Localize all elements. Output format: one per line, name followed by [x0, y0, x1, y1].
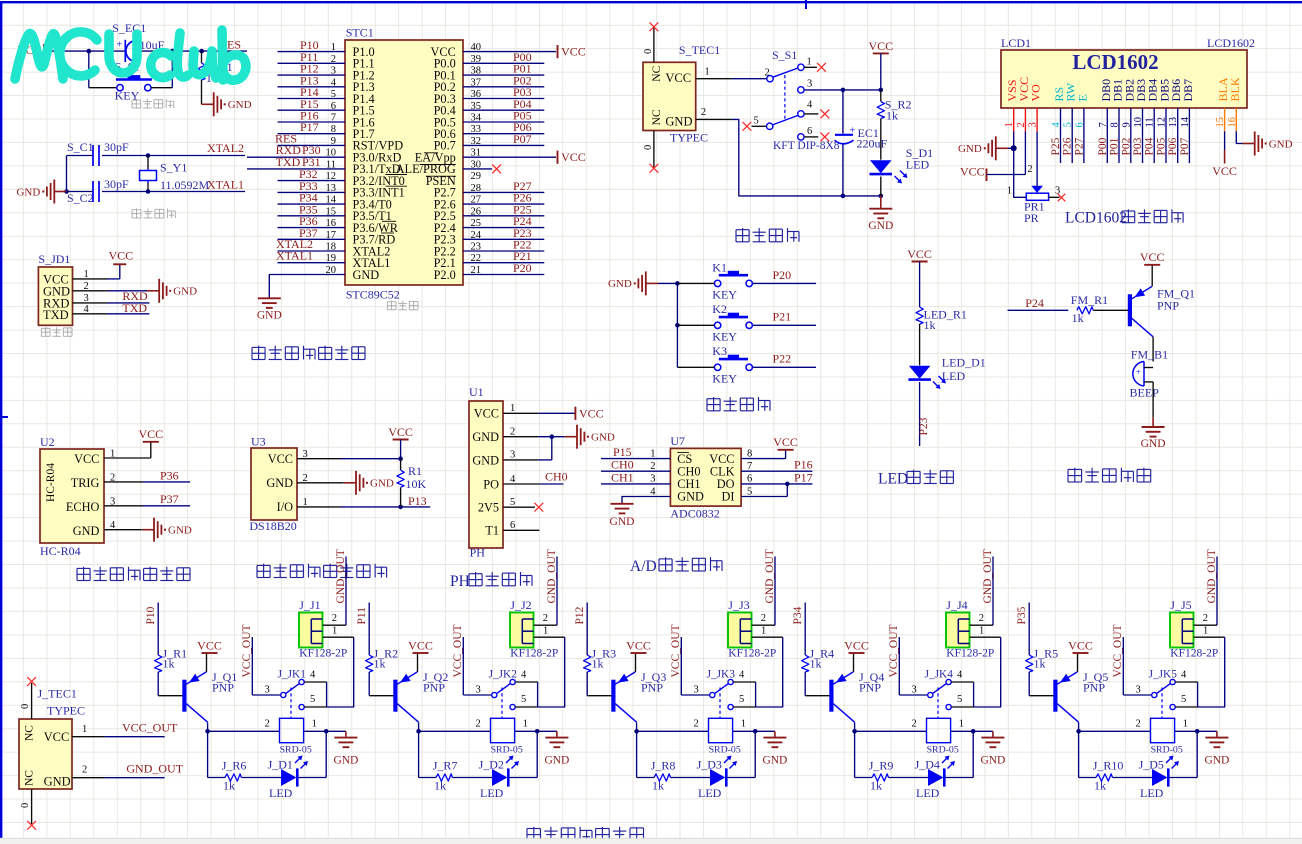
wire to J_R8: [671, 777, 711, 779]
U2 pin1 wire to VCC: [104, 442, 151, 460]
svg-text:KF128-2P: KF128-2P: [728, 648, 776, 660]
caption LCD circuit (chinese title): [1065, 209, 1183, 226]
svg-text:1: 1: [543, 626, 548, 637]
terminal pin2 wire GND_OUT (ch3): [752, 549, 776, 625]
resistor J_R5 1k: [1026, 647, 1059, 673]
svg-text:LCD1602: LCD1602: [1065, 210, 1127, 227]
svg-text:U7: U7: [670, 434, 685, 448]
svg-text:GND_OUT: GND_OUT: [335, 549, 347, 603]
wire LED branch down (ch4): [946, 731, 974, 777]
svg-text:BEEP: BEEP: [1130, 385, 1160, 399]
IC U3 DS18B20 body: [249, 435, 297, 534]
svg-text:4: 4: [807, 100, 813, 111]
power port VCC (ch3): [626, 638, 651, 653]
push button K1: [712, 260, 752, 301]
transistor J_Q2 PNP: [393, 670, 448, 722]
svg-text:0: 0: [20, 704, 31, 709]
resistor J_R4 1k: [802, 647, 835, 673]
svg-text:P21: P21: [773, 310, 792, 324]
ground GND (ch5): [1204, 731, 1229, 766]
IC STC1 STC89C52 body: [345, 26, 463, 302]
terminal pin2 wire GND_OUT (ch4): [970, 549, 994, 625]
svg-text:VCC: VCC: [579, 406, 604, 420]
relay J_JK1 coil SRD-05: [280, 718, 312, 755]
svg-text:VCC: VCC: [1140, 250, 1165, 264]
switch gang dashed link: [784, 75, 786, 119]
terminal pin1 wire (ch1): [323, 626, 354, 708]
svg-text:GND: GND: [677, 490, 704, 504]
switch blade 2-1: [773, 68, 798, 77]
wire buzzer to ground: [1152, 382, 1154, 417]
contact wires (ch5): [1175, 682, 1197, 707]
wire pin 4 P13: [278, 73, 346, 87]
wire XTAL1 net: [102, 178, 245, 194]
resistor J_R6 1k: [222, 758, 247, 792]
U3 pin1 wire P13 net: [297, 494, 430, 509]
U1 pin1 wire to VCC: [503, 403, 575, 414]
svg-text:SRD-05: SRD-05: [280, 745, 312, 756]
relay arrows (ch2): [506, 756, 519, 769]
terminal pin2 wire GND_OUT (ch1): [323, 549, 347, 625]
LCD1602 pin stubs 4-14: [1061, 108, 1190, 163]
svg-text:J_R7: J_R7: [433, 758, 458, 772]
wire VCC to reset node: [46, 50, 89, 52]
svg-text:P24: P24: [1025, 296, 1044, 310]
svg-text:LCD1602: LCD1602: [1072, 50, 1158, 74]
wire collector to VCC (ch3): [635, 653, 637, 672]
svg-text:T1: T1: [485, 524, 499, 538]
svg-text:1: 1: [523, 719, 528, 730]
caption PH module (chinese title): [450, 572, 532, 590]
wire relay pin1 to ground (ch2): [515, 719, 557, 734]
svg-text:LED: LED: [916, 786, 940, 800]
relay J_JK4 coil SRD-05: [927, 718, 959, 755]
wire relay pin1 to ground (ch1): [304, 719, 346, 734]
ground GND (STC): [257, 297, 282, 322]
svg-text:P10: P10: [145, 606, 157, 624]
wire J_R10 to node (ch5): [1079, 731, 1096, 777]
svg-text:3: 3: [650, 474, 655, 485]
wire LED_R1 to LED_D1: [919, 324, 921, 365]
wire to key S_S1 left: [89, 51, 117, 88]
svg-text:3: 3: [265, 685, 270, 696]
svg-text:J_R9: J_R9: [869, 758, 894, 772]
transistor J_Q5 PNP: [1053, 670, 1108, 722]
wire pin 30 no connect: [463, 165, 501, 174]
svg-text:GND: GND: [333, 755, 358, 767]
wire pin 14 P34: [278, 191, 346, 205]
wire crystal to XTAL1: [147, 183, 149, 192]
svg-text:5: 5: [510, 497, 515, 508]
wire emitter to relay node (ch4): [852, 722, 857, 733]
svg-text:J_R10: J_R10: [1093, 758, 1124, 772]
svg-text:+: +: [1136, 367, 1141, 377]
LED LED_D1: [908, 356, 985, 384]
wire J_R7 to node (ch2): [419, 731, 436, 777]
wire input P35: [1016, 603, 1029, 656]
ground GND (reset): [202, 92, 252, 116]
wire J_R9 to node (ch4): [855, 731, 872, 777]
svg-text:1k: 1k: [810, 657, 822, 671]
svg-text:2: 2: [694, 719, 699, 730]
power port VCC (ch5): [1068, 638, 1093, 653]
svg-text:S_JD1: S_JD1: [38, 252, 70, 266]
wire pin 15 P35: [278, 202, 346, 216]
wire VCC_OUT stub (ch4): [888, 624, 928, 695]
svg-text:GND: GND: [762, 755, 787, 767]
wire pin 5 P14: [278, 85, 346, 99]
wire emitter to relay node (ch1): [205, 722, 210, 733]
caption AD converter (chinese title): [630, 557, 722, 575]
wire J_R1 to base: [158, 672, 182, 696]
svg-text:1k: 1k: [374, 657, 386, 671]
svg-text:VCC: VCC: [408, 638, 433, 652]
svg-text:SRD-05: SRD-05: [927, 745, 959, 756]
svg-text:STC89C52: STC89C52: [346, 287, 400, 301]
svg-text:3: 3: [476, 685, 481, 696]
svg-text:GND: GND: [16, 186, 40, 198]
wire input P34: [792, 603, 805, 656]
LED_D1 emission arrows: [933, 376, 946, 389]
power port VCC (ch2): [408, 638, 433, 653]
svg-text:1: 1: [705, 67, 710, 78]
svg-text:GND: GND: [266, 476, 293, 490]
caption minimal system (chinese title): [252, 346, 365, 360]
U1 pin2 wire to GND: [503, 427, 564, 440]
svg-text:LED: LED: [878, 471, 908, 488]
U7 pin1 wire P15: [601, 445, 670, 459]
relay contact J_JK1: [265, 669, 317, 710]
svg-text:2: 2: [82, 765, 87, 776]
relay dashed link (ch1): [290, 688, 292, 719]
svg-text:1: 1: [1007, 186, 1012, 197]
svg-text:5: 5: [957, 694, 962, 705]
U7 pin4 wire to GND: [622, 486, 670, 502]
svg-text:DB7: DB7: [1181, 79, 1195, 102]
U3 pin2 wire to GND: [297, 473, 344, 484]
svg-text:10K: 10K: [406, 477, 427, 491]
svg-text:1k: 1k: [434, 779, 446, 793]
U2 pin2 wire P36: [104, 468, 190, 483]
U1 pin4 wire CH0 net: [503, 470, 567, 485]
svg-text:GND: GND: [958, 143, 982, 155]
svg-text:DI: DI: [722, 490, 735, 504]
svg-text:U1: U1: [469, 385, 484, 399]
caption ultrasonic module (chinese title): [77, 567, 190, 581]
svg-text:1: 1: [332, 626, 337, 637]
wire pin 26 P25: [463, 202, 544, 216]
svg-text:GND_OUT: GND_OUT: [1206, 549, 1218, 603]
caption relay control circuit (chinese title): [527, 827, 644, 841]
wire J_R6 to node (ch1): [208, 731, 225, 777]
svg-text:7: 7: [747, 461, 752, 472]
wire LED to ground rail: [880, 177, 882, 196]
svg-text:5: 5: [747, 486, 752, 497]
relay J_JK5 coil SRD-05: [1151, 718, 1183, 755]
wire LED branch down (ch2): [510, 731, 538, 777]
svg-text:GND: GND: [591, 432, 615, 444]
ground GND (LCD right): [1243, 132, 1293, 156]
LED S_D1: [870, 146, 934, 174]
svg-text:0: 0: [20, 803, 31, 808]
svg-text:VCC: VCC: [268, 452, 293, 466]
resistor R1 10K: [397, 459, 427, 507]
IC U1 PH body: [469, 385, 503, 560]
svg-text:2: 2: [510, 427, 515, 438]
wire pin 9 RES: [275, 131, 345, 145]
svg-text:GND: GND: [980, 755, 1005, 767]
relay dashed link (ch4): [937, 688, 939, 719]
svg-text:LCD1: LCD1: [1001, 36, 1031, 50]
svg-text:BLK: BLK: [1228, 77, 1242, 101]
wire pin 20 GND: [269, 275, 345, 298]
svg-text:K3: K3: [712, 344, 727, 358]
svg-text:2: 2: [332, 613, 337, 624]
S_TEC1 top pin 0: [643, 22, 658, 62]
svg-text:PR: PR: [1024, 211, 1039, 225]
svg-text:PH: PH: [450, 573, 470, 590]
svg-text:KF128-2P: KF128-2P: [299, 648, 347, 660]
caption reset (grey chinese): [132, 99, 174, 108]
wire pin 35 P04: [463, 97, 544, 111]
wire VCC_OUT stub (ch5): [1112, 624, 1152, 695]
svg-text:VCC_OUT: VCC_OUT: [122, 721, 178, 735]
svg-text:CH0: CH0: [545, 470, 568, 484]
LCD1602 pin names: [1005, 77, 1242, 102]
svg-text:1: 1: [312, 719, 317, 730]
LCD1602 pin numbers and nets: [1004, 116, 1238, 155]
wire J_R4 to base: [805, 672, 829, 696]
terminal pin2 wire GND_OUT (ch5): [1194, 549, 1218, 625]
switch terminal 6 with X: [798, 126, 830, 142]
wire pin 22 P21: [463, 249, 544, 263]
terminal J_J4 KF128-2P: [946, 598, 994, 659]
svg-text:GND_OUT: GND_OUT: [126, 762, 183, 776]
LCD pin15 BLA wire to VCC: [1212, 108, 1237, 178]
wire pin 8 P17: [278, 120, 346, 134]
svg-text:6: 6: [510, 520, 515, 531]
svg-text:5: 5: [739, 694, 744, 705]
svg-text:S_S1: S_S1: [772, 48, 797, 62]
wire pin 25 P24: [463, 214, 544, 228]
wire pin 24 P23: [463, 226, 544, 240]
wire key right to node B: [151, 51, 172, 88]
resistor J_R10 1k: [1093, 758, 1124, 792]
svg-text:VCC: VCC: [960, 165, 985, 179]
svg-text:VCC: VCC: [44, 730, 70, 744]
relay J_JK2 coil SRD-05: [491, 718, 523, 755]
svg-text:VCC: VCC: [74, 452, 99, 466]
wire emitter to relay node (ch2): [416, 722, 421, 733]
svg-text:P11: P11: [356, 607, 368, 625]
wires K2: [677, 310, 816, 326]
relay arrows (ch3): [724, 756, 737, 769]
svg-text:1: 1: [807, 57, 812, 68]
svg-text:1k: 1k: [592, 657, 604, 671]
ground GND (U3): [344, 471, 394, 495]
J_TEC1 pin1 wire VCC_OUT: [72, 721, 178, 737]
power port VCC (U3): [388, 425, 413, 459]
ground GND (U2): [142, 518, 192, 542]
ground GND (crystal): [16, 180, 66, 204]
ground GND (ch4): [980, 731, 1005, 766]
svg-text:P22: P22: [773, 352, 792, 366]
svg-text:LED: LED: [698, 786, 722, 800]
svg-text:LCD1602: LCD1602: [1207, 36, 1255, 50]
svg-text:30pF: 30pF: [104, 177, 129, 191]
transistor J_Q4 PNP: [829, 670, 884, 722]
svg-text:P23: P23: [918, 417, 930, 435]
ground GND (buzzer): [1141, 417, 1166, 450]
svg-text:PNP: PNP: [641, 681, 663, 695]
svg-text:ADC0832: ADC0832: [670, 507, 719, 521]
svg-text:220uF: 220uF: [857, 137, 888, 151]
svg-text:J_JK1: J_JK1: [278, 669, 306, 681]
svg-text:+: +: [850, 126, 856, 137]
switch terminal 1 with X: [798, 57, 826, 72]
svg-text:VCC: VCC: [626, 638, 651, 652]
svg-text:SRD-05: SRD-05: [1151, 745, 1183, 756]
relay arrows (ch5): [1166, 756, 1179, 769]
wire S_R1 to ground: [201, 80, 203, 104]
svg-text:3: 3: [912, 685, 917, 696]
wires K1: [677, 268, 816, 284]
J_TEC1 bottom pin 0: [20, 789, 36, 830]
svg-text:6: 6: [807, 126, 812, 137]
ground GND (LCD left): [958, 136, 1014, 160]
buzzer FM_B1 BEEP: [1130, 348, 1169, 400]
wire pin 7 P16: [278, 109, 346, 123]
svg-text:30pF: 30pF: [104, 140, 129, 154]
power port VCC (pin40): [558, 45, 586, 59]
svg-text:TXD: TXD: [43, 308, 69, 322]
U7 pin3 wire CH1: [601, 470, 670, 484]
connector S_JD1 download port: [38, 252, 72, 326]
svg-text:J_J2: J_J2: [510, 598, 531, 612]
wire pin 27 P26: [463, 191, 544, 205]
U7 pin8 wire to VCC: [741, 448, 786, 459]
wire pin 11 TXD P31: [247, 155, 345, 169]
svg-text:KEY: KEY: [712, 330, 737, 344]
terminal pin1 wire (ch5): [1194, 626, 1225, 708]
power port VCC (reset net): [17, 43, 44, 57]
svg-text:4: 4: [310, 670, 316, 681]
caption waterproof temperature module (chinese title): [257, 564, 387, 578]
svg-text:TRIG: TRIG: [71, 476, 100, 490]
wire relay pin1 to ground (ch5): [1175, 719, 1217, 734]
svg-text:DS18B20: DS18B20: [249, 519, 296, 533]
pin 1 wire to VCC: [73, 265, 120, 280]
wire pin 33 P06: [463, 120, 544, 134]
svg-text:VCC: VCC: [844, 638, 869, 652]
svg-text:P2.0: P2.0: [434, 268, 456, 282]
svg-text:J_R8: J_R8: [651, 758, 676, 772]
svg-text:VCC: VCC: [665, 71, 691, 85]
ground GND (U7): [610, 503, 635, 529]
caption power circuit (chinese title): [736, 228, 799, 242]
svg-text:LED_D1: LED_D1: [942, 356, 986, 370]
power port VCC (LED): [907, 247, 932, 307]
switch terminal 4 with X: [798, 100, 830, 119]
svg-text:J_JK3: J_JK3: [707, 669, 736, 681]
U7 pin5 wire join DO: [741, 484, 787, 497]
svg-text:K2: K2: [712, 302, 727, 316]
relay dashed link (ch3): [719, 688, 721, 719]
U1 pin5 wire with X: [503, 497, 543, 512]
wire collector to VCC (ch1): [206, 653, 208, 672]
svg-text:KF128-2P: KF128-2P: [1170, 648, 1218, 660]
wire pin 36 P03: [463, 85, 544, 99]
contact wires (ch2): [515, 682, 537, 707]
potentiometer PR1 body: [1007, 186, 1049, 225]
svg-text:GND: GND: [257, 310, 282, 322]
svg-text:LED: LED: [269, 786, 293, 800]
svg-text:J_JK2: J_JK2: [489, 669, 518, 681]
connector J_TEC1 TYPEC: [19, 687, 85, 790]
svg-text:XTAL2: XTAL2: [207, 141, 244, 155]
LED J_D5: [1139, 757, 1169, 800]
power port VCC (S_JD1): [109, 249, 134, 265]
svg-text:J_TEC1: J_TEC1: [38, 687, 77, 701]
svg-text:2: 2: [761, 613, 766, 624]
capacitor S_C2 30pF: [67, 177, 130, 205]
svg-text:E: E: [1075, 94, 1089, 101]
wire node to relay coil pin2 (ch5): [1079, 719, 1151, 732]
power port VCC (ch4): [844, 638, 869, 653]
svg-text:S_Y1: S_Y1: [160, 161, 187, 175]
svg-text:1k: 1k: [223, 779, 235, 793]
caption MCU (grey chinese): [387, 301, 418, 310]
caption crystal (grey chinese): [132, 209, 175, 219]
svg-text:A/D: A/D: [630, 558, 657, 575]
svg-text:KF128-2P: KF128-2P: [510, 648, 558, 660]
wire LED_D1 to P23: [918, 382, 930, 446]
svg-text:GND: GND: [73, 524, 100, 538]
resistor FM_R1 1k: [1071, 293, 1108, 325]
wire pin 34 P05: [463, 109, 544, 123]
svg-text:GND: GND: [610, 516, 635, 528]
svg-text:J_D2: J_D2: [479, 757, 504, 771]
svg-text:GND: GND: [544, 755, 569, 767]
wire node to relay coil pin2 (ch2): [419, 719, 491, 732]
relay dashed link (ch5): [1161, 688, 1163, 719]
LED J_D4: [915, 757, 945, 800]
svg-text:VCC_OUT: VCC_OUT: [888, 624, 900, 677]
svg-text:LED: LED: [942, 369, 966, 383]
svg-text:P17: P17: [794, 470, 813, 484]
power port VCC (buzzer): [1140, 250, 1165, 265]
svg-text:S_C1: S_C1: [67, 140, 94, 154]
IC STC1 inner pin names: [353, 45, 456, 282]
wire J_R5 to base: [1029, 672, 1053, 696]
wire pin 6 P15: [278, 97, 346, 111]
svg-text:VCC: VCC: [138, 427, 163, 441]
wire pin 37 P02: [463, 73, 544, 87]
push button K3: [712, 344, 752, 385]
wire input P12: [574, 603, 587, 656]
svg-text:HC-R04: HC-R04: [40, 544, 81, 558]
svg-text:KFT DIP-8X8: KFT DIP-8X8: [773, 140, 840, 152]
push button S_S1 KEY: [115, 60, 152, 103]
svg-text:ECHO: ECHO: [66, 500, 100, 514]
connector S_TEC1 TYPEC: [643, 43, 720, 145]
wire LED branch down (ch3): [728, 731, 756, 777]
relay J_JK3 coil SRD-05: [709, 718, 741, 755]
svg-text:NC: NC: [651, 65, 663, 81]
transistor FM_Q1 PNP: [1128, 287, 1195, 337]
contact wires (ch1): [304, 682, 326, 707]
U2 pin3 wire P37: [104, 492, 190, 507]
